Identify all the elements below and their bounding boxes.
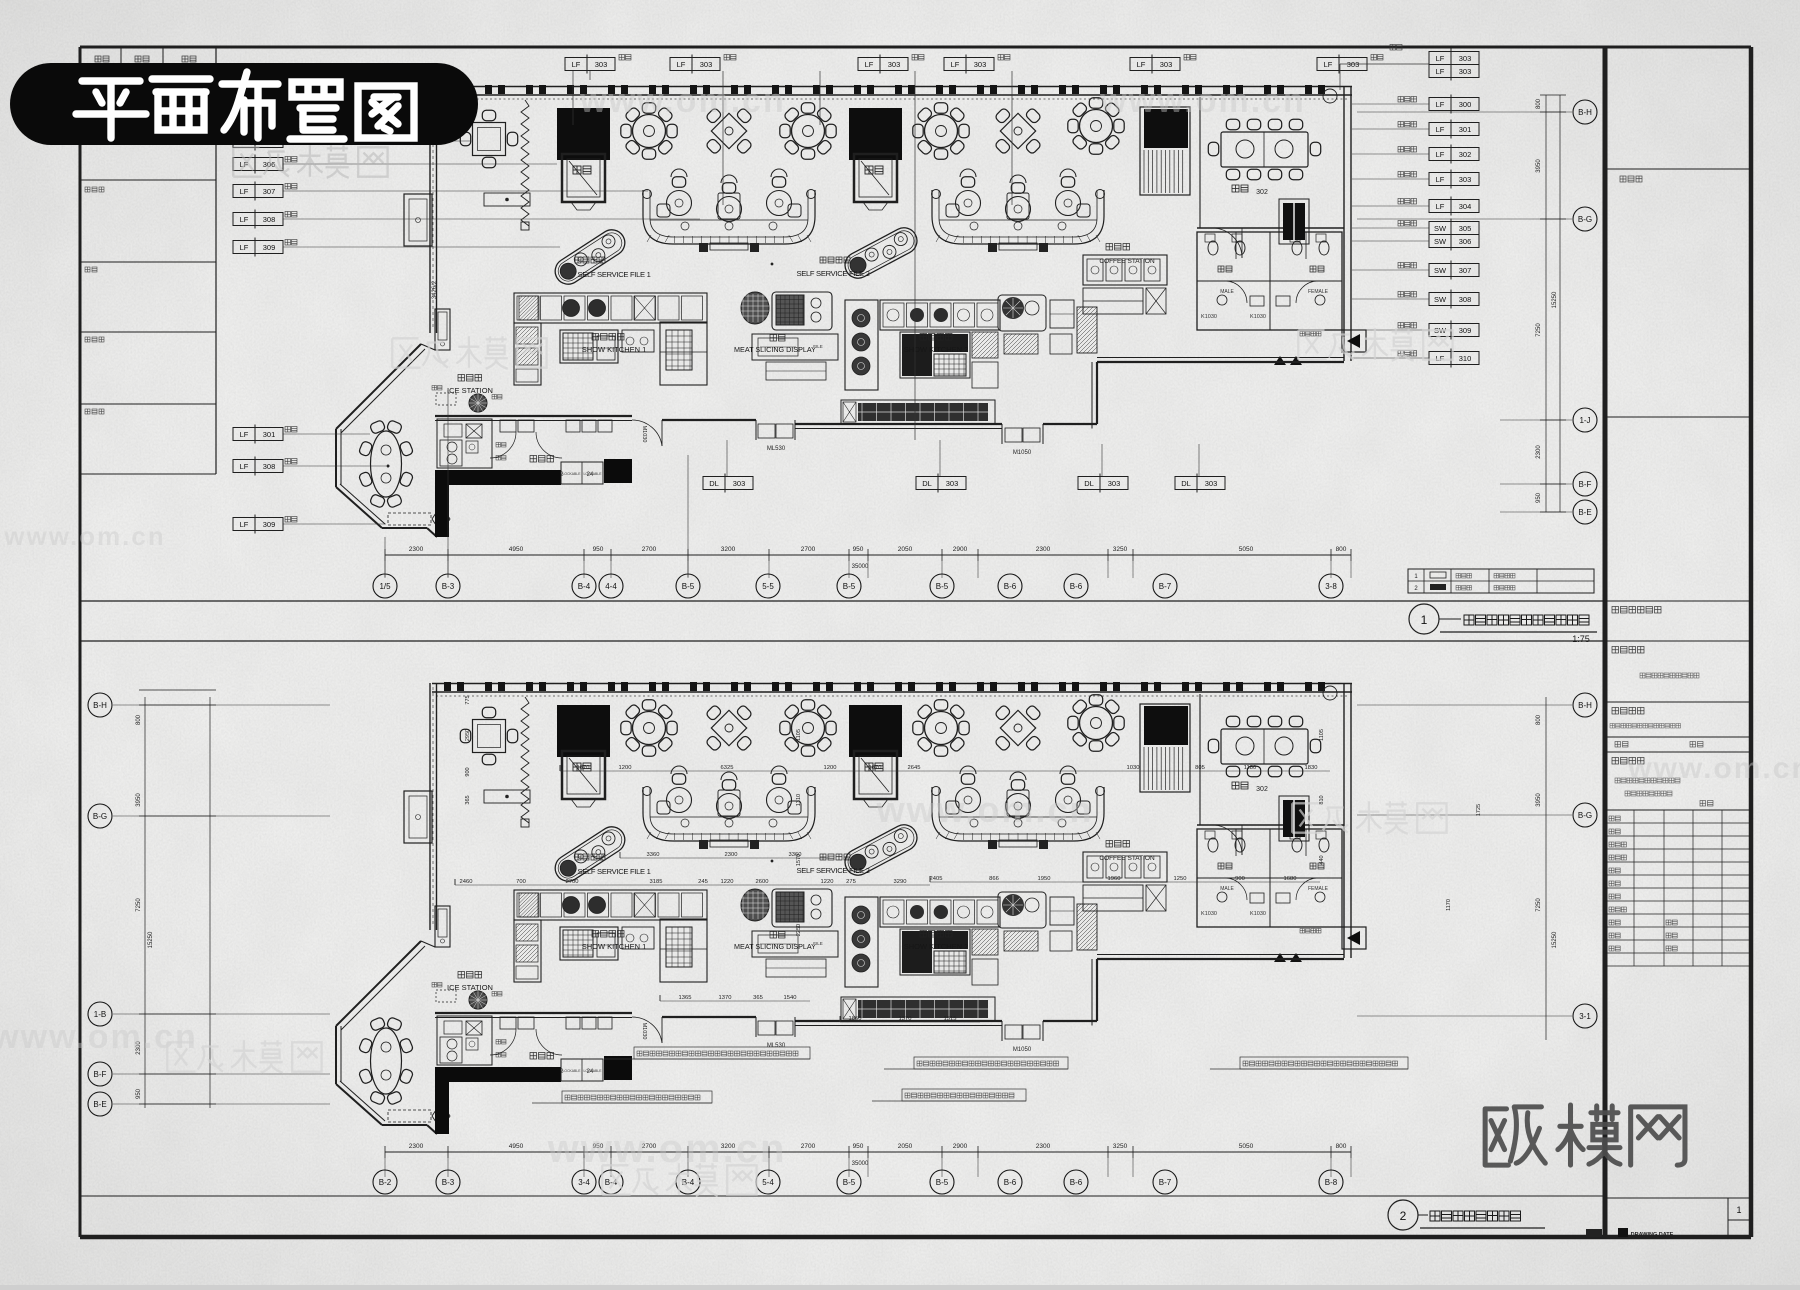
pantry black walls [435,1067,449,1134]
svg-text:810: 810 [1319,795,1325,804]
drawing title 2 [1388,1200,1418,1230]
svg-text:303: 303 [946,479,959,488]
svg-text:15250: 15250 [1552,291,1558,308]
stairs marks [1274,356,1286,365]
svg-text:K1030: K1030 [1250,314,1266,320]
square table (rotated) [994,704,1041,751]
svg-text:310: 310 [1459,354,1472,363]
top-right room wall [1343,86,1345,361]
svg-text:4950: 4950 [509,546,524,553]
self-service counter [840,820,921,880]
plan1 top-right stacked tags [1429,49,1479,68]
svg-text:2700: 2700 [642,546,657,553]
drawing date strip [1618,1228,1628,1237]
svg-text:440: 440 [1319,855,1325,864]
svg-text:SW: SW [1434,237,1447,246]
svg-text:FEMALE: FEMALE [1308,886,1329,892]
sheet border frame [80,46,1751,49]
svg-text:800: 800 [1336,546,1347,553]
plan2 left grid bubbles [144,697,146,1108]
svg-text:SW: SW [1434,266,1447,275]
svg-text:800: 800 [1336,1143,1347,1150]
svg-text:B-4: B-4 [578,582,591,591]
svg-text:1220: 1220 [821,879,834,885]
svg-text:LF: LF [1436,67,1445,76]
plan separator lines [80,600,1605,602]
meat slicing display [734,889,838,977]
curved booth seating [643,169,816,252]
svg-text:5050: 5050 [1239,546,1254,553]
svg-text:300: 300 [1459,100,1472,109]
svg-text:LF: LF [1436,150,1445,159]
svg-text:1515: 1515 [944,1016,957,1022]
svg-text:LF: LF [240,520,249,529]
svg-text:LOCKABLE: LOCKABLE [563,1069,582,1073]
svg-text:1200: 1200 [824,765,837,771]
svg-text:B-3: B-3 [442,582,455,591]
svg-text:B-7: B-7 [1159,1178,1172,1187]
svg-text:303: 303 [595,60,608,69]
plan2 right grid bubbles [1545,697,1547,1040]
kitchen right cluster [998,295,1097,354]
reception table [484,790,530,803]
dashed service box [388,1110,431,1122]
diagonal wall + octagon room [336,344,437,537]
svg-text:775: 775 [465,695,471,704]
svg-text:2700: 2700 [801,1143,816,1150]
plan2 interior dimension strings [560,770,1330,772]
svg-text:1725: 1725 [1476,804,1482,816]
diagonal wall + octagon room [336,941,437,1134]
plan2 bottom dimension chain [385,1151,1351,1153]
plan1 DL tags bottom [703,474,753,493]
plan1 bottom dimension chain [385,554,1351,556]
small black shafts [1283,800,1305,837]
svg-text:3426/2: 3426/2 [432,280,438,299]
svg-text:950: 950 [853,1143,864,1150]
svg-text:MALE: MALE [1220,289,1234,295]
lockable cabinets [561,462,603,484]
svg-text:COFFEE STATION: COFFEE STATION [1099,258,1155,265]
bottom boundary walls [435,415,632,417]
svg-text:950: 950 [853,546,864,553]
wall niche fixture [435,309,450,350]
svg-text:307: 307 [1459,266,1472,275]
service shaft (black) [557,108,610,210]
round dining table [621,103,677,159]
left window wall [429,86,431,333]
svg-text:15250: 15250 [148,931,154,948]
svg-text:MEAT SLICING DISPLAY: MEAT SLICING DISPLAY [734,345,816,354]
svg-text:1105: 1105 [796,729,802,741]
svg-text:LF: LF [240,243,249,252]
svg-text:1250: 1250 [1174,876,1187,882]
svg-text:B-5: B-5 [682,582,695,591]
svg-text:1850: 1850 [849,1016,862,1022]
svg-text:5050: 5050 [1239,1143,1254,1150]
legend table top-left [215,47,217,474]
plan2 note boxes [634,1047,810,1059]
square 4-seat table [460,707,517,764]
svg-text:2645: 2645 [908,765,921,771]
svg-text:SELF SERVICE FILE 1: SELF SERVICE FILE 1 [577,867,650,876]
svg-text:B-7: B-7 [1159,582,1172,591]
svg-text:303: 303 [1459,67,1472,76]
folding screen [521,697,529,823]
svg-text:2050: 2050 [898,546,913,553]
svg-text:2460: 2460 [460,879,473,885]
svg-text:B-5: B-5 [843,1178,856,1187]
svg-text:www.om.cn: www.om.cn [1627,752,1800,785]
lockable cabinets [561,1059,603,1081]
svg-text:K1030: K1030 [1201,911,1217,917]
svg-text:303: 303 [733,479,746,488]
svg-text:SHOW KITCHEN 1: SHOW KITCHEN 1 [582,942,647,951]
labels self service [575,257,605,263]
round dining table [1068,695,1124,751]
svg-text:950: 950 [1536,492,1542,503]
square table (rotated) [994,107,1041,154]
svg-text:866: 866 [989,876,999,882]
svg-text:B-E: B-E [93,1100,106,1109]
svg-text:303: 303 [1205,479,1218,488]
svg-text:2405: 2405 [930,876,943,882]
svg-text:K1030: K1030 [1250,911,1266,917]
svg-text:303: 303 [974,60,987,69]
reception table [484,193,530,206]
svg-text:365: 365 [753,995,763,1001]
svg-text:303: 303 [1108,479,1121,488]
svg-text:800: 800 [1536,98,1542,109]
wall niche fixture [435,906,450,947]
svg-text:3-1: 3-1 [1579,1012,1591,1021]
dashed service box [388,513,431,525]
svg-text:307: 307 [263,187,276,196]
svg-text:SELF SERVICE FILE 2: SELF SERVICE FILE 2 [796,866,869,875]
small black shafts [1283,203,1305,240]
svg-text:ML530: ML530 [767,446,786,452]
show kitchen 2 [845,897,1000,987]
fire exit arrow [1342,927,1366,949]
svg-text:1200: 1200 [619,765,632,771]
plan1 right grid bubbles + dims [1545,95,1547,512]
meat slicing display [734,292,838,380]
fire exit arrow [1342,330,1366,352]
oval banquet table [358,1017,413,1106]
svg-text:M1050: M1050 [1013,450,1032,456]
misc leader dots [771,263,773,265]
round dining table [913,103,969,159]
svg-text:1/5: 1/5 [379,582,391,591]
svg-text:1540: 1540 [784,995,797,1001]
svg-text:LOCKABLE: LOCKABLE [584,472,603,476]
svg-text:B-G: B-G [1578,811,1592,820]
svg-text:365: 365 [465,795,471,804]
svg-text:3290: 3290 [894,879,907,885]
svg-text:DRAWING DATE: DRAWING DATE [1631,1232,1674,1238]
svg-text:SELF SERVICE FILE 1: SELF SERVICE FILE 1 [577,270,650,279]
restrooms [1197,829,1342,927]
svg-text:SHOW KITCHEN 1: SHOW KITCHEN 1 [582,345,647,354]
svg-text:MEAT SLICING DISPLAY: MEAT SLICING DISPLAY [734,942,816,951]
svg-text:3-8: 3-8 [1325,582,1337,591]
service shaft (black) [557,705,610,807]
svg-text:950: 950 [593,546,604,553]
svg-text:900: 900 [1235,876,1245,882]
svg-text:4-4: 4-4 [605,582,617,591]
svg-text:B-5: B-5 [936,582,949,591]
curved booth seating [643,766,816,849]
svg-text:800: 800 [136,714,142,725]
plan1 grid bubbles [373,574,397,598]
drawing title 1 [1409,604,1439,634]
svg-text:2: 2 [1400,1209,1407,1223]
svg-text:2300: 2300 [409,1143,424,1150]
svg-text:309: 309 [263,243,276,252]
left window wall [429,683,431,930]
svg-text:1680: 1680 [1284,876,1297,882]
black banner pill [10,63,478,145]
curved booth seating [932,766,1105,849]
svg-text:303: 303 [1160,60,1173,69]
svg-text:LF: LF [572,60,581,69]
svg-text:303: 303 [888,60,901,69]
svg-text:308: 308 [263,462,276,471]
svg-text:B-H: B-H [1578,701,1592,710]
title block signature table [1605,809,1751,811]
svg-text:B-G: B-G [93,812,107,821]
svg-text:LF: LF [240,215,249,224]
svg-text:7250: 7250 [1536,323,1542,337]
svg-text:B-6: B-6 [1070,582,1083,591]
svg-text:306: 306 [1459,237,1472,246]
svg-text:304: 304 [1459,202,1472,211]
show kitchen 1 [514,293,707,385]
svg-text:ICE STATION: ICE STATION [447,983,493,992]
svg-text:3950: 3950 [1536,793,1542,807]
plan1 right tag column [1429,95,1479,114]
svg-text:www.om.cn: www.om.cn [3,521,166,551]
svg-text:309: 309 [1459,326,1472,335]
svg-text:3185: 3185 [650,879,663,885]
svg-text:LF: LF [1436,175,1445,184]
exterior window wall (top) [432,683,1352,685]
svg-text:2300: 2300 [725,852,738,858]
svg-text:LF: LF [240,462,249,471]
shaft 3 + cabinet [1140,704,1190,792]
bottom boundary walls [435,1012,632,1014]
juice bar counter [437,1016,506,1065]
svg-text:950: 950 [136,1088,142,1099]
svg-text:800: 800 [1536,714,1542,725]
svg-text:B-H: B-H [1578,108,1592,117]
juice bar counter [437,419,506,468]
svg-text:DL: DL [1181,479,1191,488]
svg-text:SW: SW [1434,224,1447,233]
kitchen right cluster [998,892,1097,951]
round dining table [780,700,836,756]
svg-text:3950: 3950 [136,793,142,807]
square 4-seat table [460,110,517,167]
svg-text:5-4: 5-4 [762,1178,774,1187]
curved booth seating [932,169,1105,252]
svg-text:1:75: 1:75 [1572,634,1590,644]
svg-text:FEMALE: FEMALE [1308,289,1329,295]
svg-text:7250: 7250 [1536,898,1542,912]
pantry black walls [435,470,449,537]
svg-text:B-5: B-5 [843,582,856,591]
misc leader dots [771,860,773,862]
svg-text:1310: 1310 [796,794,802,806]
top-right room wall [1343,683,1345,958]
left wall cabinet fixture [404,791,432,843]
svg-text:3250: 3250 [1113,546,1128,553]
svg-text:MALE: MALE [1220,886,1234,892]
svg-text:1-J: 1-J [1579,416,1590,425]
svg-text:1180: 1180 [1244,765,1256,771]
pantry room [490,1017,612,1075]
svg-text:LF: LF [1436,354,1445,363]
round dining table [621,700,677,756]
svg-text:www.om.cn: www.om.cn [579,82,786,120]
plan1 left lower tags [233,425,283,444]
svg-text:309: 309 [263,520,276,529]
svg-text:B-F: B-F [94,1070,107,1079]
svg-text:M1050: M1050 [1013,1047,1032,1053]
ice station [432,972,502,1010]
svg-text:2250: 2250 [796,924,802,936]
long 10-seat table [1208,716,1320,776]
service shaft (black) [849,108,902,210]
svg-text:1960: 1960 [1108,876,1121,882]
svg-text:LF: LF [677,60,686,69]
svg-text:700: 700 [516,879,526,885]
svg-text:303: 303 [1459,54,1472,63]
svg-text:15250: 15250 [1552,931,1558,948]
svg-text:3-4: 3-4 [578,1178,590,1187]
page number [1728,1198,1751,1220]
plan1 top tag row [565,55,615,74]
coffee station [1083,841,1167,912]
svg-text:2700: 2700 [801,546,816,553]
svg-text:1950: 1950 [1038,876,1051,882]
svg-text:B-6: B-6 [1004,582,1017,591]
labels self service [575,854,605,860]
square table (rotated) [705,704,752,751]
svg-text:2300: 2300 [409,546,424,553]
pantry room [490,420,612,478]
banner text strokes (平面布置图) [76,72,414,139]
svg-text:4950: 4950 [509,1143,524,1150]
oval banquet table [358,420,413,509]
svg-text:1030: 1030 [1127,765,1140,771]
svg-text:275: 275 [846,879,856,885]
svg-text:900: 900 [465,767,471,776]
svg-text:301: 301 [263,430,276,439]
svg-text:3200: 3200 [721,546,736,553]
folding screen [521,100,529,226]
svg-text:302: 302 [1459,150,1472,159]
svg-text:2300: 2300 [1036,546,1051,553]
svg-text:1370: 1370 [719,995,732,1001]
svg-text:308: 308 [1459,295,1472,304]
ice station [432,375,502,413]
svg-text:308: 308 [263,215,276,224]
svg-text:1830: 1830 [1305,765,1318,771]
svg-text:LF: LF [1436,54,1445,63]
title block column [1603,47,1608,1237]
big dark watermark 欧模网 [1485,1105,1685,1165]
coffee station [1083,244,1167,315]
square table (rotated) [705,107,752,154]
svg-text:5-5: 5-5 [762,582,774,591]
svg-text:B-E: B-E [1578,508,1591,517]
svg-text:805: 805 [1195,765,1205,771]
svg-text:3950: 3950 [1536,159,1542,173]
svg-text:B-5: B-5 [936,1178,949,1187]
svg-text:2300: 2300 [1036,1143,1051,1150]
round dining table [913,700,969,756]
svg-text:B-G: B-G [1578,215,1592,224]
svg-text:1: 1 [1421,613,1428,627]
svg-text:LOCKABLE: LOCKABLE [584,1069,603,1073]
svg-text:LF: LF [865,60,874,69]
svg-text:2900: 2900 [953,1143,968,1150]
svg-text:303: 303 [700,60,713,69]
svg-text:ML530: ML530 [767,1043,786,1049]
stairs marks [1274,953,1286,962]
svg-text:SW: SW [1434,295,1447,304]
svg-text:LOCKABLE: LOCKABLE [563,472,582,476]
svg-text:LF: LF [240,430,249,439]
svg-text:1: 1 [1736,1205,1741,1215]
svg-text:1570: 1570 [796,854,802,866]
shaft 3 + cabinet [1140,107,1190,195]
svg-text:1870: 1870 [869,765,882,771]
svg-text:SELF SERVICE FILE 2: SELF SERVICE FILE 2 [796,269,869,278]
svg-text:SHOW KITCHEN 2: SHOW KITCHEN 2 [904,942,969,951]
show kitchen 1 [514,890,707,982]
svg-text:1220: 1220 [721,879,734,885]
svg-text:LF: LF [1436,100,1445,109]
svg-text:3250: 3250 [1113,1143,1128,1150]
round dining table [780,103,836,159]
svg-text:1105: 1105 [1319,729,1325,741]
svg-text:7250: 7250 [136,898,142,912]
exterior window wall (top) [432,86,1352,88]
svg-text:K1030: K1030 [1201,314,1217,320]
left wall cabinet fixture [404,194,432,246]
svg-text:1365: 1365 [679,995,692,1001]
svg-text:M1030: M1030 [641,426,647,443]
svg-text:1370: 1370 [899,1016,912,1022]
svg-text:LF: LF [240,187,249,196]
svg-text:B-3: B-3 [442,1178,455,1187]
svg-text:3360: 3360 [647,852,660,858]
svg-text:303: 303 [1347,60,1360,69]
svg-text:302: 302 [1256,786,1268,793]
svg-text:ICE STATION: ICE STATION [447,386,493,395]
svg-text:B-2: B-2 [379,1178,392,1187]
self-service counter [550,822,630,886]
svg-text:2700: 2700 [566,879,579,885]
svg-text:DL: DL [709,479,719,488]
svg-text:6325: 6325 [721,765,734,771]
svg-text:LF: LF [1324,60,1333,69]
svg-text:1170: 1170 [1446,899,1452,911]
svg-text:LF: LF [951,60,960,69]
legend table small [1408,569,1594,593]
